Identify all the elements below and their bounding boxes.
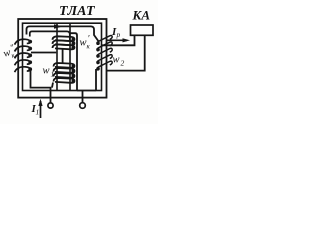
coil w''k on left limb bbox=[15, 39, 31, 72]
label w2 bbox=[113, 55, 125, 68]
wire to terminal 1 bbox=[50, 88, 52, 103]
coil w'k right-end dots bbox=[72, 38, 76, 50]
wire w'k side lead down to junction bbox=[70, 33, 77, 90]
svg-text:ТЛАТ: ТЛАТ bbox=[59, 4, 96, 19]
wire w''k bottom lead bbox=[31, 70, 52, 88]
arrow Ip bbox=[107, 38, 130, 42]
wire short-circuit top link from w''k to w2 (with arrow) bbox=[27, 26, 99, 41]
coil w1 right-end dots bbox=[72, 64, 76, 83]
svg-text:1: 1 bbox=[36, 108, 40, 117]
wire w''k top to w'k top bbox=[30, 31, 70, 41]
coil w1 on middle limb (4 loops) bbox=[54, 63, 75, 83]
label w1 bbox=[43, 66, 55, 79]
terminal circle 1 bbox=[48, 103, 53, 108]
wire w1 bottom lead bbox=[52, 83, 53, 88]
core middle limb left edge bbox=[56, 23, 58, 90]
svg-text:p: p bbox=[116, 30, 121, 39]
svg-text:2: 2 bbox=[121, 59, 125, 68]
svg-text:w: w bbox=[43, 66, 50, 77]
label w'k bbox=[80, 34, 91, 51]
label I1 bbox=[31, 103, 40, 117]
wire w''k to w1 link bbox=[31, 52, 56, 54]
label w''k bbox=[1, 42, 17, 62]
wire w2 inner lead down bbox=[95, 69, 97, 91]
terminal circle 2 bbox=[80, 103, 86, 109]
relay KA box bbox=[131, 25, 154, 35]
svg-text:1: 1 bbox=[51, 70, 55, 79]
arrow on short-circuit wire bbox=[54, 24, 63, 28]
svg-text:КА: КА bbox=[132, 8, 151, 23]
svg-text:к: к bbox=[87, 43, 91, 51]
wire w2 to relay KA bbox=[101, 35, 135, 45]
core middle limb right edge bbox=[69, 23, 71, 90]
coil w2 left-end dots bbox=[96, 41, 100, 70]
arrow I1 bbox=[38, 99, 42, 118]
svg-text:к: к bbox=[10, 51, 16, 60]
coil w''k right-end dots bbox=[28, 40, 32, 71]
coil w2 on right limb (diagonal helix) bbox=[97, 35, 112, 70]
wire KA right lead down and across bbox=[107, 25, 145, 71]
coil w'k on middle limb (3 loops) bbox=[53, 36, 75, 49]
wire w'k bottom to w1 top link bbox=[62, 50, 64, 64]
core outer rectangle bbox=[18, 19, 106, 98]
svg-text:w: w bbox=[80, 38, 87, 49]
wire junction bar bbox=[77, 90, 96, 92]
wire tap to terminal 2 bbox=[82, 91, 84, 103]
svg-text:w: w bbox=[113, 55, 120, 66]
core inner rectangle (window) bbox=[23, 23, 102, 90]
label Ip bbox=[111, 26, 121, 39]
